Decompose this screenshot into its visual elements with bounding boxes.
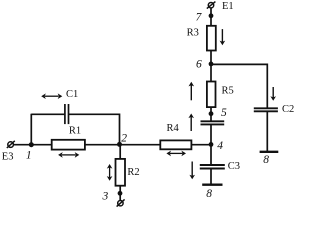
wire R3 to R5 through node 6 bbox=[210, 51, 212, 82]
svg-text:R2: R2 bbox=[127, 167, 139, 178]
ground bar node 8 under C3 bbox=[202, 184, 222, 186]
resistor R5 bbox=[207, 82, 216, 108]
svg-text:3: 3 bbox=[102, 190, 109, 202]
svg-text:R3: R3 bbox=[187, 28, 199, 39]
svg-text:R5: R5 bbox=[222, 85, 234, 96]
capacitor C2 bbox=[254, 108, 278, 111]
node 7 bbox=[209, 13, 214, 18]
wire node 1 up to C1 bbox=[30, 114, 32, 145]
wire R4 to node 4 bbox=[191, 144, 211, 146]
current arrow down beside C2 bbox=[270, 87, 276, 101]
wire capacitor 5-4 to C3 through node 4 bbox=[210, 125, 212, 165]
resistor R2 bbox=[116, 159, 126, 186]
svg-text:4: 4 bbox=[217, 140, 223, 152]
voltage arrow beside R2 bbox=[107, 164, 113, 181]
node 5 bbox=[209, 111, 214, 116]
svg-text:1: 1 bbox=[26, 150, 32, 162]
node 4 bbox=[209, 142, 214, 147]
wire C3 to ground bar bbox=[210, 169, 212, 185]
svg-text:C3: C3 bbox=[228, 161, 240, 172]
wire R2 to terminal 3 bbox=[119, 186, 121, 201]
capacitor C1 bbox=[65, 104, 69, 124]
current arrow down beside R3 bbox=[220, 29, 226, 45]
current arrow up beside R5 bbox=[189, 82, 195, 101]
terminal E1 bbox=[207, 2, 216, 9]
voltage arrow below R4 bbox=[166, 151, 186, 157]
node 6 bbox=[209, 62, 214, 67]
current arrow down beside C3 bbox=[189, 162, 195, 180]
capacitor C3 bbox=[200, 165, 225, 169]
svg-text:C1: C1 bbox=[66, 89, 78, 100]
terminal E3 bbox=[7, 141, 15, 148]
node 3 bbox=[118, 191, 123, 196]
wire R1 to R4 bbox=[85, 144, 160, 146]
svg-text:8: 8 bbox=[263, 154, 269, 166]
resistor R3 bbox=[207, 26, 216, 51]
svg-text:8: 8 bbox=[206, 188, 212, 200]
wire C1 right down to node 2 bbox=[69, 114, 120, 144]
svg-text:E3: E3 bbox=[2, 152, 14, 163]
svg-text:R1: R1 bbox=[69, 126, 81, 137]
wire E3 to R1 bbox=[13, 144, 51, 146]
wire R5 to capacitor 5-4 bbox=[210, 107, 212, 121]
voltage arrow above C1 bbox=[41, 93, 62, 99]
svg-text:E1: E1 bbox=[222, 1, 234, 12]
resistor R1 bbox=[52, 140, 85, 150]
capacitor between node 5 and node 4 bbox=[201, 121, 225, 124]
svg-text:2: 2 bbox=[121, 132, 127, 144]
wire terminal E1 to R3 bbox=[210, 8, 212, 26]
node 1 bbox=[29, 142, 34, 147]
node 2 bbox=[117, 142, 122, 147]
resistor R4 bbox=[160, 140, 191, 149]
terminal below node 3 bbox=[117, 199, 125, 206]
wire C2 to ground bar bbox=[266, 111, 268, 152]
svg-text:5: 5 bbox=[221, 107, 227, 119]
voltage arrow below R1 bbox=[58, 152, 79, 158]
wire C1 left bbox=[31, 113, 64, 115]
current arrow up beside capacitor 5-4 bbox=[188, 114, 194, 132]
svg-text:C2: C2 bbox=[282, 104, 294, 115]
ground bar node 8 under C2 bbox=[260, 151, 279, 153]
wire node 6 to C2 branch bbox=[211, 64, 267, 107]
svg-text:R4: R4 bbox=[167, 123, 180, 134]
wire node 2 down to R2 bbox=[119, 145, 121, 159]
svg-text:6: 6 bbox=[196, 59, 202, 71]
